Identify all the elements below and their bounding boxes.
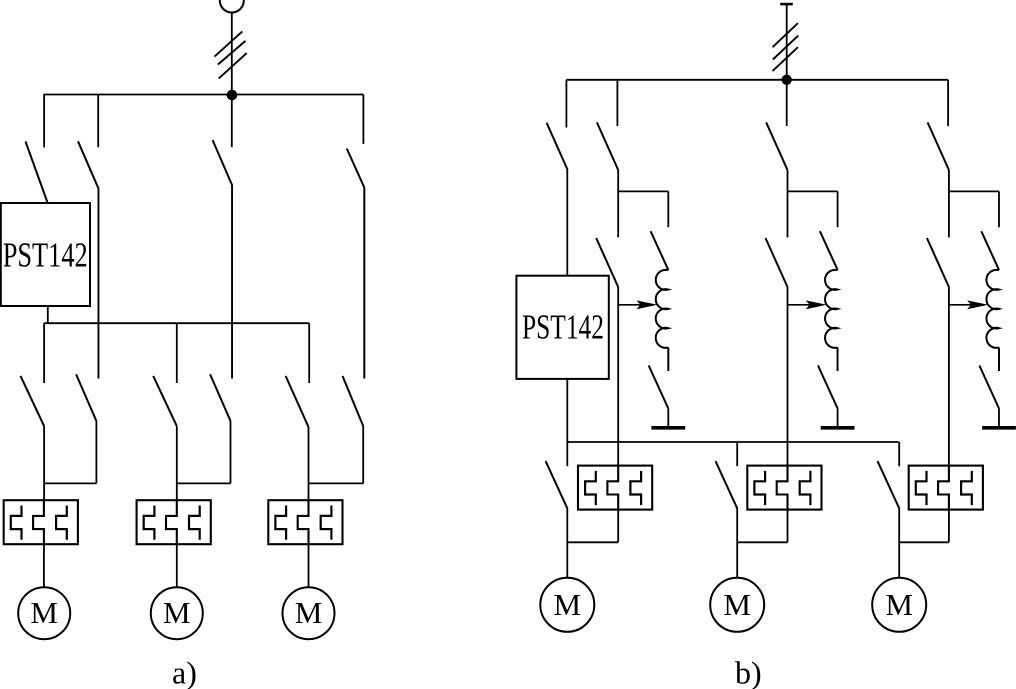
- motor M3 (a): [283, 587, 335, 639]
- wire: motor2 merge jog (b): [737, 541, 787, 543]
- switch: reactor shorting branch2 (b): [818, 348, 838, 409]
- switch: branch3 bypass contactor (b): [927, 191, 949, 287]
- wire: branch2 left drop (a): [176, 426, 178, 500]
- motor M1 (b): [540, 578, 594, 632]
- switch: branch3 right (a): [343, 188, 365, 427]
- switch: feeder C (a): [213, 95, 233, 185]
- switch: branch1 feeder (b): [597, 80, 618, 170]
- switch: feeder B (a): [78, 95, 98, 189]
- wire: branch1 feeder drop (b): [617, 170, 619, 191]
- switch: branch2 feeder (b): [766, 80, 787, 170]
- wire: motor3 drop (b): [898, 508, 900, 578]
- switch: branch1 reactor contactor (b): [651, 191, 669, 270]
- ground bar branch1 (b): [651, 426, 685, 430]
- wire: branch1 tee (b): [618, 190, 668, 192]
- wire: reactor bottom lead branch1 (b): [667, 348, 669, 372]
- wire: branch2 to motor (a): [176, 544, 178, 587]
- arrow into reactor branch3 (b): [949, 300, 988, 309]
- wire: branch3 to motor (a): [308, 544, 310, 587]
- thermal overload relay branch1 (a): [4, 500, 78, 544]
- switch: branch1 right (a): [76, 188, 98, 421]
- thermal overload relay motor2 (b): [747, 466, 821, 510]
- switch: branch1 bypass contactor (b): [596, 191, 618, 287]
- svg-text:M: M: [30, 595, 58, 630]
- junction dot (b): [782, 75, 791, 84]
- svg-text:M: M: [554, 587, 582, 622]
- switch: branch2 bypass contactor (b): [766, 191, 788, 287]
- wire: branch3 right drop (a): [362, 426, 364, 483]
- switch: branch2 reactor contactor (b): [820, 191, 838, 270]
- svg-text:b): b): [735, 655, 762, 689]
- wire: motor1 merge jog (b): [567, 541, 618, 543]
- wire: reactor bottom lead branch2 (b): [837, 348, 839, 372]
- wire: branch1 to motor (a): [43, 544, 45, 587]
- arrow into reactor branch2 (b): [788, 300, 827, 309]
- ground bar branch3 (b): [982, 426, 1016, 430]
- wire: branch2 tee (b): [788, 190, 838, 192]
- switch: motor3 direct (b): [878, 442, 900, 508]
- wire: branch3 left drop (a): [308, 427, 310, 500]
- switch: branch1 left (a): [21, 323, 45, 426]
- supply source terminal (diagram b): [780, 3, 793, 6]
- wire: branch2 merge jog (a): [177, 482, 231, 484]
- wire: motor3 merge jog (b): [899, 541, 949, 543]
- wire: branch2 right drop (a): [230, 421, 232, 483]
- switch: reactor shorting branch1 (b): [649, 348, 669, 409]
- switch: branch3 left (a): [286, 323, 310, 427]
- wire: supply drop (a): [231, 13, 233, 95]
- thermal overload relay branch2 (a): [137, 500, 211, 544]
- bus wire lower (b): [567, 441, 899, 443]
- wire: reactor bottom lead branch3 (b): [998, 348, 1000, 372]
- svg-text:PST142: PST142: [522, 308, 604, 347]
- wire: relay2 output (b): [787, 510, 789, 543]
- wire: branch1 bypass drop (b): [617, 287, 619, 466]
- switch: PST feeder (b): [547, 80, 568, 169]
- bus wire top (a): [44, 94, 364, 96]
- wire: feeder C drop (a): [231, 185, 233, 378]
- wire: PST input (b): [566, 169, 568, 276]
- wire: branch1 left drop (a): [43, 426, 45, 500]
- wire: to ground bar branch2 (b): [837, 409, 839, 427]
- svg-text:a): a): [172, 655, 197, 689]
- wire: branch3 merge jog (a): [309, 482, 364, 484]
- switch: PST feeder (a): [26, 95, 48, 203]
- switch: branch2 left (a): [153, 323, 177, 426]
- svg-text:M: M: [163, 595, 191, 630]
- soft starter PST142 (a): [1, 203, 90, 306]
- wire: supply drop (b): [786, 4, 788, 80]
- thermal overload relay motor1 (b): [578, 466, 652, 510]
- wire: motor2 drop (b): [736, 508, 738, 578]
- motor M2 (b): [710, 578, 764, 632]
- switch: motor1 direct (b): [546, 442, 568, 508]
- switch: branch2 right (a): [210, 185, 232, 421]
- switch: branch3 feeder (b): [928, 80, 949, 170]
- switch: motor2 direct (b): [716, 442, 738, 508]
- thermal overload relay branch3 (a): [268, 500, 342, 544]
- wire: branch3 tee (b): [949, 190, 999, 192]
- reactor coil branch1 (b): [656, 270, 669, 348]
- ground bar branch2 (b): [821, 426, 855, 430]
- wire: branch3 bypass drop (b): [948, 287, 950, 466]
- bus wire secondary (a): [44, 322, 310, 324]
- bus wire top (b): [566, 79, 948, 81]
- motor M3 (b): [872, 578, 926, 632]
- wire: feeder B drop (a): [97, 188, 99, 378]
- three-phase slash marks (b): [773, 23, 799, 71]
- supply source terminal (diagram a): [220, 0, 244, 13]
- wire: branch2 bypass drop (b): [787, 287, 789, 466]
- switch: reactor shorting branch3 (b): [979, 348, 999, 409]
- svg-text:M: M: [295, 595, 323, 630]
- svg-text:M: M: [723, 587, 751, 622]
- motor M1 (a): [18, 587, 70, 639]
- arrow into reactor branch1 (b): [618, 300, 657, 309]
- junction dot (a): [227, 90, 237, 100]
- motor M2 (a): [151, 587, 203, 639]
- wire: to ground bar branch3 (b): [998, 409, 1000, 427]
- wire: branch2 feeder drop (b): [787, 170, 789, 191]
- three-phase slash marks (a): [215, 31, 247, 78]
- svg-text:M: M: [885, 587, 913, 622]
- wire: PST output (a): [47, 306, 49, 323]
- switch: branch3 reactor contactor (b): [981, 191, 999, 270]
- reactor coil branch3 (b): [986, 270, 999, 348]
- reactor coil branch2 (b): [825, 270, 838, 348]
- switch: feeder D (a): [347, 95, 365, 188]
- wire: branch1 right drop (a): [95, 421, 97, 483]
- wire: PST output (b): [566, 379, 568, 442]
- wire: branch1 merge jog (a): [44, 482, 96, 484]
- svg-text:PST142: PST142: [3, 236, 88, 275]
- thermal overload relay motor3 (b): [909, 466, 983, 510]
- wire: to ground bar branch1 (b): [667, 409, 669, 427]
- wire: feeder D drop (a): [363, 188, 365, 379]
- soft starter PST142 (b): [516, 276, 608, 379]
- wire: relay1 output (b): [617, 510, 619, 543]
- wire: relay3 output (b): [948, 510, 950, 543]
- wire: branch3 feeder drop (b): [948, 170, 950, 191]
- wire: motor1 drop (b): [566, 508, 568, 578]
